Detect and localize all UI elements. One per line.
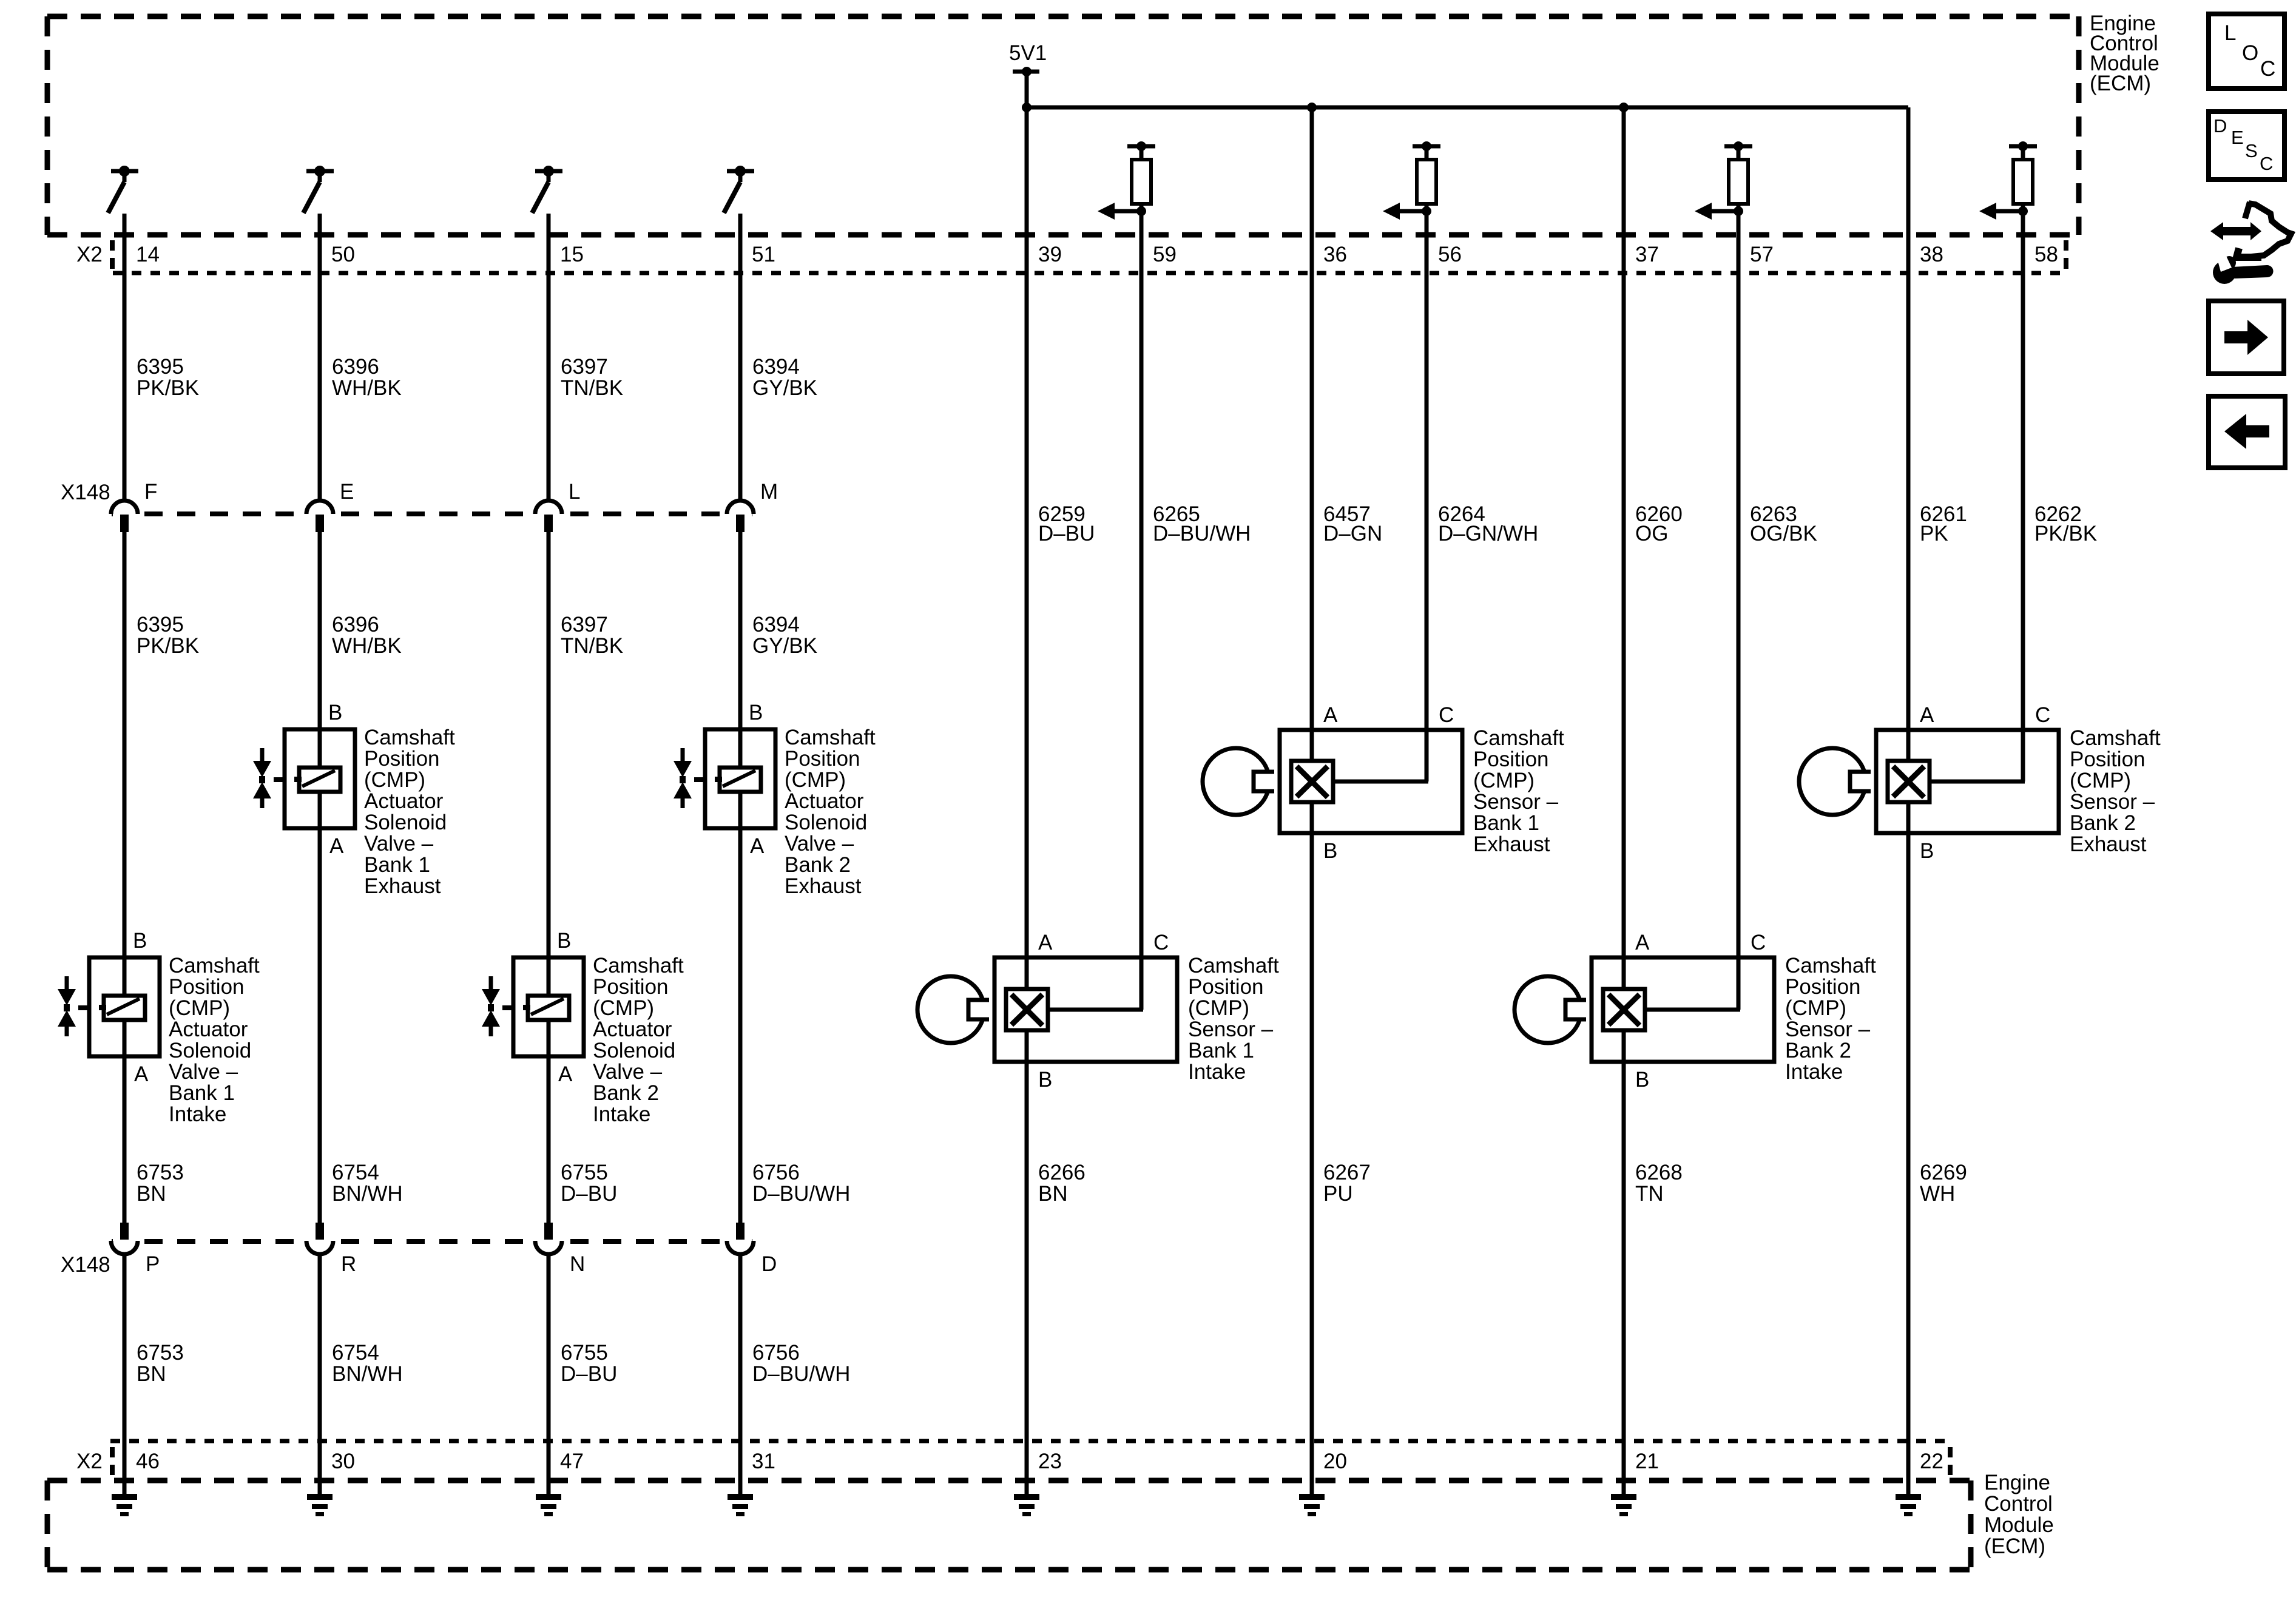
label 6756 D–BU/WH lower — [752, 1341, 850, 1386]
svg-text:6753: 6753 — [137, 1161, 184, 1184]
ECM driver switch pin 51 — [724, 166, 754, 213]
svg-text:37: 37 — [1635, 243, 1659, 266]
svg-text:30: 30 — [331, 1450, 355, 1473]
label Engine Control Module (ECM) bottom right — [1984, 1471, 2054, 1558]
svg-text:Bank 2: Bank 2 — [1785, 1039, 1851, 1062]
svg-text:Position: Position — [364, 747, 440, 771]
svg-text:(CMP): (CMP) — [1473, 769, 1535, 792]
svg-text:Solenoid: Solenoid — [593, 1039, 675, 1062]
svg-text:D–BU: D–BU — [1038, 522, 1095, 545]
svg-text:A: A — [1635, 931, 1650, 954]
svg-text:B: B — [749, 701, 763, 724]
svg-text:E: E — [2231, 127, 2244, 148]
label 6755 D–BU lower — [561, 1341, 617, 1386]
wire 6395 PK/BK / 6753 BN — [123, 214, 127, 1494]
svg-text:15: 15 — [560, 243, 584, 266]
svg-text:WH/BK: WH/BK — [332, 376, 402, 400]
icon LOC box — [2209, 14, 2284, 89]
svg-text:WH: WH — [1920, 1182, 1955, 1206]
signal arrow pin 56 — [1383, 203, 1427, 220]
svg-text:Sensor –: Sensor – — [1188, 1018, 1274, 1041]
svg-text:20: 20 — [1323, 1450, 1347, 1473]
svg-text:Camshaft: Camshaft — [169, 954, 260, 977]
wire 6394 GY/BK / 6756 D-BU/WH — [738, 214, 743, 1494]
svg-text:Actuator: Actuator — [785, 789, 864, 813]
svg-text:6266: 6266 — [1038, 1161, 1086, 1184]
svg-text:R: R — [341, 1252, 356, 1276]
svg-text:Solenoid: Solenoid — [364, 811, 447, 834]
connector X148 pin R — [306, 1223, 356, 1276]
svg-text:(ECM): (ECM) — [1984, 1534, 2045, 1558]
svg-text:Bank 2: Bank 2 — [593, 1081, 659, 1105]
label 6260 OG — [1635, 502, 1683, 545]
label 6395 PK/BK upper — [137, 355, 199, 400]
pin X2-22 — [1920, 1450, 1943, 1473]
svg-text:Bank 1: Bank 1 — [1473, 811, 1539, 835]
connector X2 row top (dotted line and label) — [76, 240, 2068, 273]
icon DESC box — [2209, 112, 2284, 180]
connector X148 pin E — [306, 480, 354, 532]
svg-text:(CMP): (CMP) — [1188, 996, 1249, 1020]
svg-text:B: B — [1038, 1068, 1052, 1092]
label 6266 BN — [1038, 1161, 1086, 1206]
svg-text:Solenoid: Solenoid — [785, 811, 867, 834]
svg-text:14: 14 — [136, 243, 160, 266]
svg-text:D–BU/WH: D–BU/WH — [752, 1362, 850, 1386]
svg-text:TN/BK: TN/BK — [561, 634, 623, 658]
svg-text:Camshaft: Camshaft — [1188, 954, 1279, 977]
svg-text:OG/BK: OG/BK — [1750, 522, 1817, 545]
junction bus to wire 6259 — [1022, 103, 1032, 112]
svg-text:50: 50 — [331, 243, 355, 266]
signal arrow pin 58 — [1979, 203, 2023, 220]
svg-text:TN/BK: TN/BK — [561, 376, 623, 400]
svg-text:(CMP): (CMP) — [169, 996, 230, 1020]
svg-text:A: A — [1323, 703, 1338, 727]
svg-text:Bank 2: Bank 2 — [2070, 811, 2136, 835]
svg-text:(ECM): (ECM) — [2090, 72, 2151, 95]
svg-text:Exhaust: Exhaust — [1473, 832, 1550, 856]
label 6754 BN/WH upper — [332, 1161, 403, 1206]
svg-text:31: 31 — [752, 1450, 775, 1473]
pin X2-20 — [1323, 1450, 1347, 1473]
svg-text:PU: PU — [1323, 1182, 1353, 1206]
label 6395 PK/BK lower — [137, 613, 199, 658]
svg-text:6756: 6756 — [752, 1161, 800, 1184]
svg-text:6396: 6396 — [332, 613, 379, 636]
label 6269 WH — [1920, 1161, 1967, 1206]
svg-text:Bank 1: Bank 1 — [169, 1081, 235, 1105]
svg-text:6756: 6756 — [752, 1341, 800, 1365]
svg-text:Position: Position — [785, 747, 860, 771]
label 6396 WH/BK lower — [332, 613, 402, 658]
svg-text:47: 47 — [560, 1450, 584, 1473]
svg-text:Position: Position — [1188, 975, 1264, 999]
label 6396 WH/BK upper — [332, 355, 402, 400]
svg-text:Position: Position — [169, 975, 245, 999]
svg-text:Valve –: Valve – — [785, 832, 854, 856]
svg-text:F: F — [144, 480, 157, 504]
svg-text:Bank 1: Bank 1 — [1188, 1039, 1254, 1062]
svg-text:Position: Position — [1785, 975, 1861, 999]
svg-text:(CMP): (CMP) — [2070, 769, 2131, 792]
svg-text:B: B — [1920, 839, 1934, 863]
svg-text:B: B — [328, 701, 342, 724]
wire 6457 D-GN / 6267 PU — [1310, 107, 1314, 1494]
svg-text:Exhaust: Exhaust — [2070, 832, 2147, 856]
svg-text:A: A — [750, 834, 765, 858]
ground pin 31 — [728, 1494, 753, 1516]
svg-text:Camshaft: Camshaft — [593, 954, 684, 977]
label 6264 D–GN/WH — [1438, 502, 1538, 545]
pin X2-36 — [1323, 243, 1347, 266]
label 6262 PK/BK — [2034, 502, 2097, 545]
solenoid valve CMP actuator Bank 2 Exhaust — [674, 701, 876, 898]
svg-text:Module: Module — [1984, 1513, 2054, 1537]
svg-text:BN: BN — [137, 1362, 166, 1386]
connector X148 pin D — [727, 1223, 777, 1276]
connector X148 pin P — [111, 1223, 160, 1276]
svg-text:D–GN/WH: D–GN/WH — [1438, 522, 1538, 545]
svg-text:Intake: Intake — [1785, 1060, 1843, 1084]
label 6457 D–GN — [1323, 502, 1382, 545]
icon arrow right box — [2209, 301, 2284, 374]
label 6265 D–BU/WH — [1153, 502, 1251, 545]
svg-text:C: C — [1153, 931, 1169, 954]
svg-text:E: E — [340, 480, 354, 504]
connector X148 pin F — [111, 480, 157, 532]
svg-text:(CMP): (CMP) — [364, 768, 425, 792]
svg-text:Bank 2: Bank 2 — [785, 853, 851, 877]
svg-text:Actuator: Actuator — [364, 789, 444, 813]
svg-text:46: 46 — [136, 1450, 160, 1473]
label 6755 D–BU upper — [561, 1161, 617, 1206]
label 6754 BN/WH lower — [332, 1341, 403, 1386]
resistor ECM pull-up pin 59 — [1127, 141, 1155, 216]
pin X2-51 — [752, 243, 775, 266]
svg-text:L: L — [569, 480, 580, 504]
Engine Control Module (ECM) box bottom — [47, 1480, 1971, 1570]
svg-text:C: C — [1439, 703, 1454, 727]
connector X148 pin L — [535, 480, 580, 532]
svg-text:O: O — [2242, 41, 2258, 65]
wire 6397 TN/BK / 6755 D-BU — [547, 214, 551, 1494]
connector X148 pin M — [727, 480, 778, 532]
pin X2-23 — [1038, 1450, 1062, 1473]
svg-text:BN: BN — [137, 1182, 166, 1206]
svg-text:5V1: 5V1 — [1009, 41, 1047, 65]
svg-text:A: A — [134, 1062, 149, 1086]
svg-text:D–BU/WH: D–BU/WH — [752, 1182, 850, 1206]
svg-text:GY/BK: GY/BK — [752, 376, 817, 400]
svg-text:Position: Position — [2070, 748, 2146, 771]
svg-text:B: B — [1323, 839, 1337, 863]
svg-text:N: N — [570, 1252, 585, 1276]
svg-text:6754: 6754 — [332, 1161, 379, 1184]
svg-text:Valve –: Valve – — [364, 832, 434, 856]
svg-text:Engine: Engine — [1984, 1471, 2050, 1494]
ground pin 47 — [536, 1494, 561, 1516]
svg-text:TN: TN — [1635, 1182, 1664, 1206]
svg-text:PK/BK: PK/BK — [137, 376, 199, 400]
svg-text:22: 22 — [1920, 1450, 1943, 1473]
pin X2-57 — [1750, 243, 1774, 266]
wire 6396 WH/BK / 6754 BN/WH — [318, 214, 322, 1494]
svg-text:6396: 6396 — [332, 355, 379, 379]
svg-text:(CMP): (CMP) — [593, 996, 654, 1020]
pin X2-30 — [331, 1450, 355, 1473]
svg-text:PK/BK: PK/BK — [137, 634, 199, 658]
svg-text:C: C — [2035, 703, 2050, 727]
pin X2-56 — [1438, 243, 1462, 266]
svg-text:P: P — [146, 1252, 160, 1276]
svg-text:Camshaft: Camshaft — [364, 726, 455, 749]
svg-text:Camshaft: Camshaft — [1785, 954, 1876, 977]
svg-text:6755: 6755 — [561, 1161, 608, 1184]
svg-text:Camshaft: Camshaft — [1473, 726, 1564, 750]
pin X2-14 — [136, 243, 160, 266]
svg-text:Actuator: Actuator — [593, 1018, 672, 1041]
svg-text:M: M — [760, 480, 778, 504]
svg-text:56: 56 — [1438, 243, 1462, 266]
label 6756 D–BU/WH upper — [752, 1161, 850, 1206]
svg-text:Solenoid: Solenoid — [169, 1039, 251, 1062]
svg-text:6753: 6753 — [137, 1341, 184, 1365]
svg-text:6397: 6397 — [561, 355, 608, 379]
icon arrow left box — [2209, 396, 2285, 468]
solenoid valve CMP actuator Bank 2 Intake — [482, 929, 684, 1126]
svg-text:Camshaft: Camshaft — [2070, 726, 2161, 750]
wire 6261 PK / 6269 WH — [1906, 107, 1911, 1494]
svg-text:OG: OG — [1635, 522, 1668, 545]
svg-text:D–BU/WH: D–BU/WH — [1153, 522, 1251, 545]
svg-text:6267: 6267 — [1323, 1161, 1371, 1184]
svg-text:PK: PK — [1920, 522, 1948, 545]
ground pin 46 — [112, 1494, 137, 1516]
icon connector-repair (double arrow, plug outline, wrench) — [2210, 202, 2291, 284]
wire 6263 OG/BK — [1737, 211, 1741, 1010]
svg-text:C: C — [1751, 931, 1766, 954]
solenoid valve CMP actuator Bank 1 Exhaust — [253, 701, 455, 898]
svg-text:BN: BN — [1038, 1182, 1068, 1206]
resistor ECM pull-up pin 56 — [1413, 141, 1440, 216]
label 6259 D–BU — [1038, 502, 1095, 545]
svg-text:L: L — [2224, 21, 2236, 45]
CMP sensor Bank 2 Exhaust — [1799, 703, 2161, 863]
svg-text:PK/BK: PK/BK — [2034, 522, 2097, 545]
svg-text:59: 59 — [1153, 243, 1177, 266]
signal arrow pin 57 — [1695, 203, 1738, 220]
connector X148 row 2 label — [61, 1241, 760, 1277]
svg-text:Intake: Intake — [169, 1102, 226, 1126]
wire 6262 PK/BK — [2021, 211, 2025, 781]
svg-text:Intake: Intake — [593, 1102, 650, 1126]
svg-text:57: 57 — [1750, 243, 1774, 266]
resistor ECM pull-up pin 58 — [2009, 141, 2037, 216]
svg-text:X2: X2 — [76, 243, 103, 266]
svg-text:6394: 6394 — [752, 613, 800, 636]
svg-text:D–BU: D–BU — [561, 1362, 617, 1386]
Engine Control Module (ECM) box top — [47, 16, 2079, 235]
svg-text:(CMP): (CMP) — [785, 768, 846, 792]
svg-text:23: 23 — [1038, 1450, 1062, 1473]
svg-text:D–BU: D–BU — [561, 1182, 617, 1206]
label 6397 TN/BK lower — [561, 613, 623, 658]
svg-text:6268: 6268 — [1635, 1161, 1683, 1184]
pin X2-38 — [1920, 243, 1943, 266]
pin X2-39 — [1038, 243, 1062, 266]
svg-text:Valve –: Valve – — [169, 1060, 238, 1084]
label 6267 PU — [1323, 1161, 1371, 1206]
svg-text:38: 38 — [1920, 243, 1943, 266]
label 6394 GY/BK upper — [752, 355, 817, 400]
svg-text:Exhaust: Exhaust — [364, 874, 441, 898]
svg-text:D: D — [761, 1252, 777, 1276]
svg-text:B: B — [557, 929, 571, 953]
pin X2-50 — [331, 243, 355, 266]
svg-text:C: C — [2260, 153, 2273, 174]
connector X148 pin N — [535, 1223, 585, 1276]
svg-text:BN/WH: BN/WH — [332, 1182, 403, 1206]
label 6753 BN upper — [137, 1161, 184, 1206]
ECM driver switch pin 15 — [532, 166, 562, 213]
label 6263 OG/BK — [1750, 502, 1817, 545]
svg-text:D: D — [2213, 115, 2227, 137]
ground pin 20 — [1299, 1494, 1325, 1516]
svg-text:Control: Control — [1984, 1492, 2053, 1516]
CMP sensor Bank 1 Exhaust — [1203, 703, 1564, 863]
pin X2-15 — [560, 243, 584, 266]
ECM driver switch pin 14 — [108, 166, 138, 213]
svg-text:39: 39 — [1038, 243, 1062, 266]
svg-text:58: 58 — [2034, 243, 2058, 266]
svg-text:Position: Position — [1473, 748, 1549, 771]
svg-text:S: S — [2245, 140, 2258, 161]
svg-text:6755: 6755 — [561, 1341, 608, 1365]
svg-text:6395: 6395 — [137, 355, 184, 379]
svg-text:B: B — [1635, 1068, 1649, 1092]
label 6394 GY/BK lower — [752, 613, 817, 658]
pin X2-58 — [2034, 243, 2058, 266]
ground pin 23 — [1014, 1494, 1039, 1516]
signal arrow pin 59 — [1098, 203, 1141, 220]
svg-text:D–GN: D–GN — [1323, 522, 1382, 545]
svg-text:Sensor –: Sensor – — [1473, 790, 1559, 814]
svg-text:6394: 6394 — [752, 355, 800, 379]
label 6753 BN lower — [137, 1341, 184, 1386]
svg-text:(CMP): (CMP) — [1785, 996, 1846, 1020]
svg-text:X148: X148 — [61, 481, 110, 504]
ground pin 30 — [307, 1494, 333, 1516]
wire 6264 D-GN/WH — [1425, 211, 1429, 781]
svg-text:36: 36 — [1323, 243, 1347, 266]
svg-text:6269: 6269 — [1920, 1161, 1967, 1184]
svg-text:A: A — [1038, 931, 1053, 954]
svg-text:C: C — [2260, 57, 2275, 81]
svg-text:6397: 6397 — [561, 613, 608, 636]
connector X2 row bottom (dotted line and label) — [76, 1441, 1953, 1475]
wire 6265 D-BU/WH — [1140, 211, 1144, 1010]
pin X2-46 — [136, 1450, 160, 1473]
svg-text:Exhaust: Exhaust — [785, 874, 862, 898]
junction bus to wire 6457 — [1307, 103, 1317, 112]
svg-text:Sensor –: Sensor – — [2070, 790, 2155, 814]
svg-text:Intake: Intake — [1188, 1060, 1246, 1084]
ground pin 22 — [1896, 1494, 1921, 1516]
svg-text:Camshaft: Camshaft — [785, 726, 876, 749]
solenoid valve CMP actuator Bank 1 Intake — [58, 929, 260, 1126]
pin X2-31 — [752, 1450, 775, 1473]
wire 6260 OG / 6268 TN — [1622, 107, 1626, 1494]
svg-text:Actuator: Actuator — [169, 1018, 248, 1041]
svg-text:Valve –: Valve – — [593, 1060, 663, 1084]
pin X2-37 — [1635, 243, 1659, 266]
svg-text:Position: Position — [593, 975, 669, 999]
CMP sensor Bank 2 Intake — [1514, 931, 1876, 1092]
CMP sensor Bank 1 Intake — [917, 931, 1279, 1092]
svg-text:X2: X2 — [76, 1450, 103, 1473]
ground pin 21 — [1611, 1494, 1636, 1516]
connector X148 row 1 label — [61, 481, 760, 514]
svg-text:21: 21 — [1635, 1450, 1659, 1473]
svg-text:BN/WH: BN/WH — [332, 1362, 403, 1386]
resistor ECM pull-up pin 57 — [1724, 141, 1752, 216]
svg-text:6395: 6395 — [137, 613, 184, 636]
pin X2-21 — [1635, 1450, 1659, 1473]
label 6261 PK — [1920, 502, 1967, 545]
pin X2-59 — [1153, 243, 1177, 266]
wire 6259 D-BU / 6266 BN — [1025, 107, 1029, 1494]
label Engine Control Module (ECM) top right — [2090, 12, 2159, 95]
svg-text:Sensor –: Sensor – — [1785, 1018, 1871, 1041]
svg-text:GY/BK: GY/BK — [752, 634, 817, 658]
svg-text:6754: 6754 — [332, 1341, 379, 1365]
svg-text:B: B — [133, 929, 147, 953]
svg-text:X148: X148 — [61, 1253, 110, 1277]
svg-text:A: A — [1920, 703, 1934, 727]
label 6268 TN — [1635, 1161, 1683, 1206]
svg-text:A: A — [558, 1062, 573, 1086]
junction bus to wire 6260 — [1619, 103, 1629, 112]
pin X2-47 — [560, 1450, 584, 1473]
node 5V1 — [1009, 41, 1047, 107]
wire 5V reference bus — [1027, 106, 1908, 110]
svg-text:51: 51 — [752, 243, 775, 266]
ECM driver switch pin 50 — [303, 166, 334, 213]
svg-text:Bank 1: Bank 1 — [364, 853, 430, 877]
label 6397 TN/BK upper — [561, 355, 623, 400]
svg-text:A: A — [329, 834, 344, 858]
svg-text:WH/BK: WH/BK — [332, 634, 402, 658]
